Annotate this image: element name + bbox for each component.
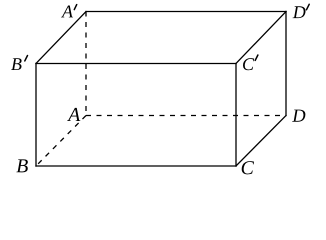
edge C'C (right front vertical)	[235, 64, 237, 167]
prime of D'	[307, 4, 310, 9]
prime of B'	[25, 56, 28, 61]
label C	[242, 161, 254, 174]
prime of A'	[74, 5, 76, 10]
label C'	[243, 58, 254, 70]
edge D'D (right back vertical)	[285, 12, 287, 116]
hidden edge A'A (dashed vertical)	[85, 12, 87, 116]
edge A'D' (top back)	[86, 11, 286, 13]
label A	[67, 108, 80, 121]
edge CD (bottom right slant)	[236, 116, 286, 167]
edge B'B (left front vertical)	[35, 64, 37, 167]
edge B'C' (top front)	[36, 63, 236, 65]
prime of C'	[255, 55, 258, 60]
label D	[292, 110, 305, 122]
hidden edge AD (dashed horizontal)	[86, 115, 286, 117]
edge BC (bottom front)	[36, 165, 236, 167]
label A'	[61, 6, 73, 18]
edge D'C' (top right slant)	[236, 12, 286, 64]
label B	[16, 159, 27, 172]
label D'	[293, 6, 306, 18]
hidden edge AB (dashed slant)	[36, 116, 86, 167]
edge A'B' (top left slant)	[36, 12, 86, 64]
label B'	[11, 58, 21, 70]
